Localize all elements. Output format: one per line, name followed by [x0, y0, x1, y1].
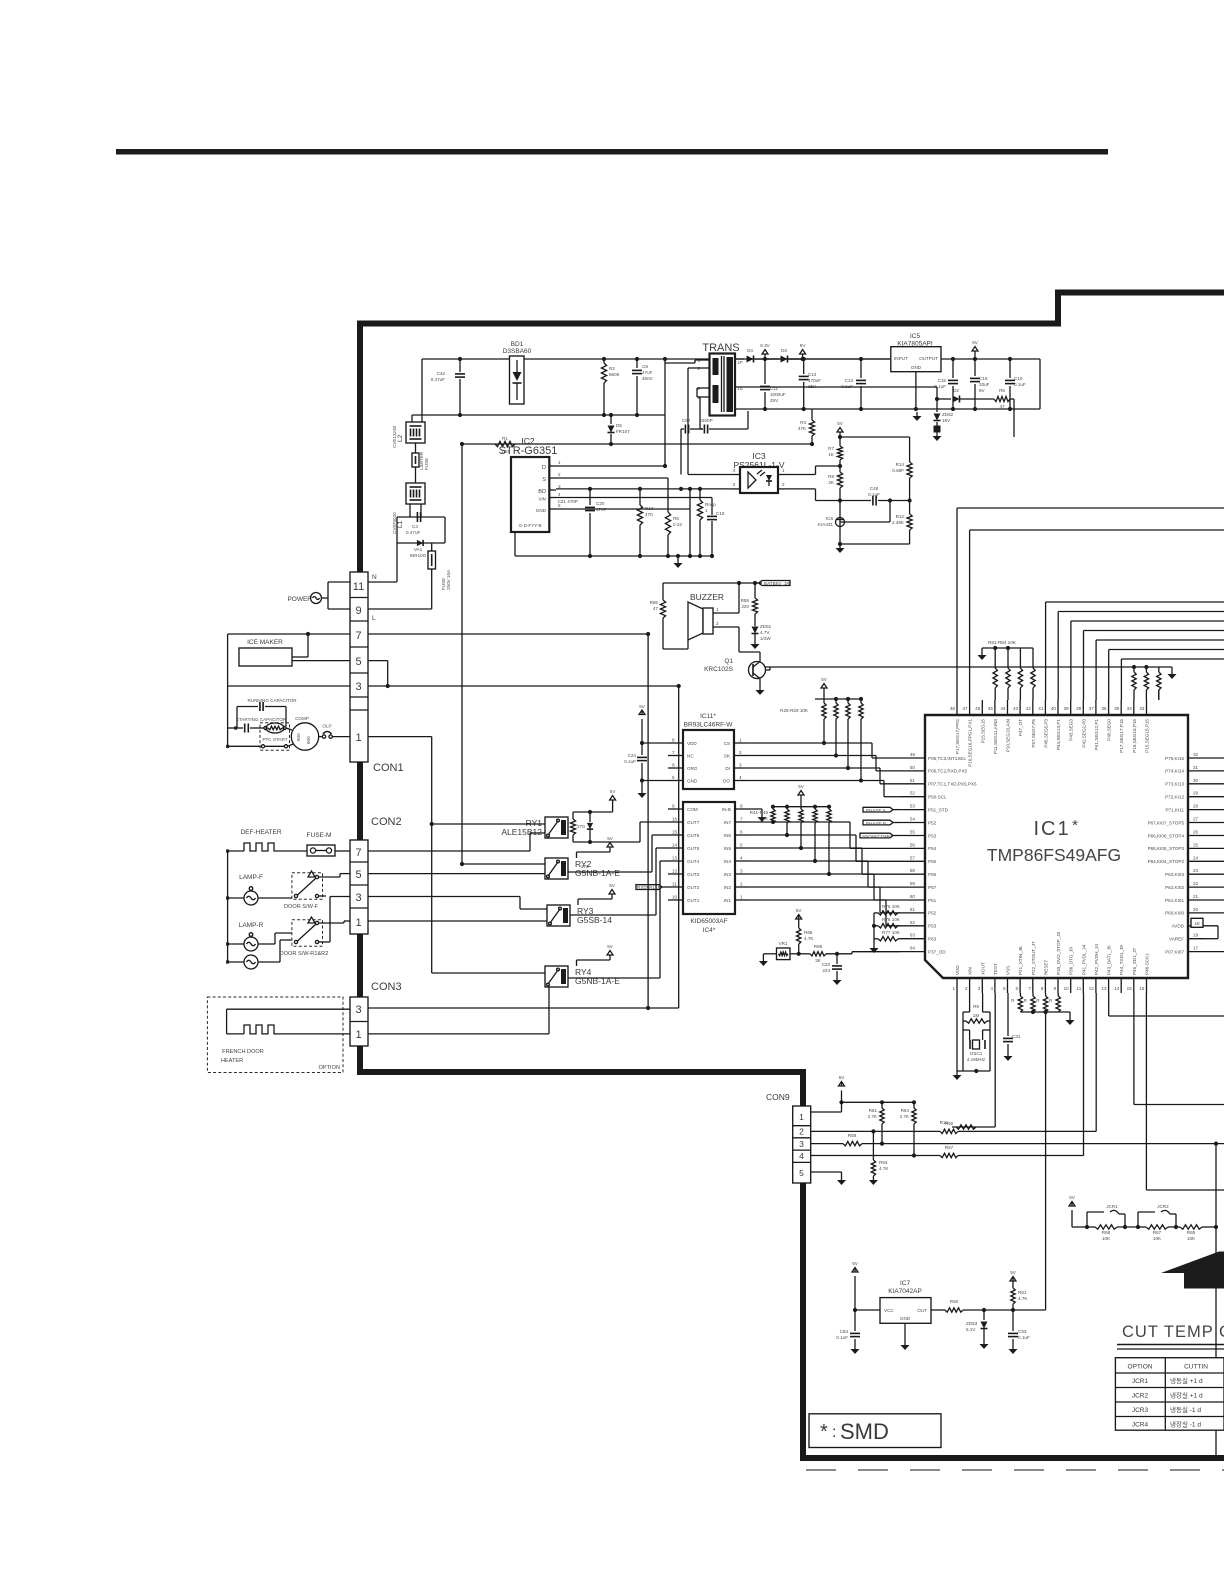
resistor R53 4.7K pulldown	[869, 1131, 889, 1185]
svg-text:PHASE B: PHASE B	[866, 821, 886, 826]
svg-text:R75 10K: R75 10K	[882, 904, 901, 909]
connector CON9	[766, 1092, 811, 1183]
optocoupler IC3 PS2561L-1-V	[732, 451, 786, 493]
motor COMP	[226, 716, 319, 750]
capacitor C10 0.1uF	[1005, 357, 1026, 411]
svg-text:1M: 1M	[973, 1013, 980, 1018]
wire: aux winding to zener	[735, 387, 937, 399]
svg-text:R10: R10	[645, 506, 654, 511]
svg-text:1: 1	[740, 895, 743, 900]
svg-text:4: 4	[558, 492, 561, 497]
resistor R2 560K	[601, 359, 620, 415]
inductor L1 CV970020	[392, 483, 425, 534]
svg-text:4.7K: 4.7K	[879, 1166, 889, 1171]
svg-text:223: 223	[822, 968, 830, 973]
svg-text:2: 2	[558, 472, 561, 477]
svg-text:VDD: VDD	[955, 965, 960, 975]
svg-text:6V: 6V	[979, 388, 986, 393]
svg-text:C48: C48	[870, 486, 879, 491]
svg-text:10K: 10K	[1102, 1236, 1111, 1241]
svg-text:NC: NC	[687, 754, 694, 759]
svg-text:25V: 25V	[770, 398, 779, 403]
svg-text:P16,SEG16,PPG1,PX1: P16,SEG16,PPG1,PX1	[968, 719, 973, 767]
diode D41 relay RY1	[587, 810, 593, 844]
svg-text:C42: C42	[437, 371, 446, 376]
svg-text:3: 3	[355, 892, 361, 904]
svg-text:OUT6: OUT6	[687, 833, 700, 838]
svg-text:P57: P57	[928, 885, 937, 890]
svg-text:FUSE-M: FUSE-M	[307, 832, 332, 839]
svg-text:270: 270	[577, 824, 585, 829]
svg-text:OPTION: OPTION	[319, 1065, 340, 1071]
svg-text:P41_PVDL_J4: P41_PVDL_J4	[1081, 944, 1086, 975]
wire: L line to CON1 pin9	[368, 569, 432, 622]
svg-text:3: 3	[978, 986, 981, 991]
svg-text:R7: R7	[828, 446, 834, 451]
svg-text:CV970020: CV970020	[392, 512, 397, 534]
svg-text:4: 4	[732, 468, 735, 473]
resistor R14 680K	[892, 437, 912, 503]
svg-text:0.1uF: 0.1uF	[624, 759, 636, 764]
svg-text:IC11*: IC11*	[700, 713, 716, 720]
svg-text:JCR4: JCR4	[1132, 1422, 1149, 1429]
svg-text:VSS: VSS	[1006, 966, 1011, 975]
svg-text:DOOR S/W-F: DOOR S/W-F	[284, 904, 319, 910]
svg-text:IN1: IN1	[724, 898, 732, 903]
svg-text:IC1: IC1	[1033, 818, 1070, 840]
svg-text:JCR1: JCR1	[1132, 1378, 1149, 1385]
svg-text:TEST: TEST	[993, 963, 998, 975]
zener ZD52 18V	[933, 399, 954, 441]
svg-text:4.7K: 4.7K	[804, 936, 814, 941]
svg-text:P33_DVO_STOP_J3: P33_DVO_STOP_J3	[1056, 931, 1061, 975]
svg-text:5V: 5V	[852, 1261, 859, 1266]
svg-text:1: 1	[716, 607, 719, 612]
svg-text:60: 60	[910, 894, 916, 899]
svg-text:3: 3	[740, 869, 743, 874]
svg-text:470: 470	[645, 512, 653, 517]
wire: RY2 contacts	[368, 862, 545, 874]
svg-text:ORG: ORG	[687, 766, 698, 771]
svg-text:LAMP-R: LAMP-R	[239, 922, 264, 929]
wire: snubber return	[462, 443, 812, 445]
capacitor C31 VSS	[1003, 993, 1021, 1061]
ground resistor trio	[873, 944, 875, 948]
svg-text:11: 11	[672, 882, 677, 887]
resistor trio R75-R77 10K to IC1	[872, 904, 901, 944]
svg-text:C16: C16	[979, 376, 988, 381]
capacitor C8 47uF 450V	[632, 359, 654, 415]
net tag RXD5RL1R	[636, 885, 668, 890]
svg-text:1/2W: 1/2W	[760, 636, 771, 641]
svg-text:FRENCH DOOR: FRENCH DOOR	[222, 1049, 264, 1055]
svg-text:4: 4	[740, 856, 743, 861]
svg-text:R5: R5	[999, 388, 1005, 393]
svg-text:600: 600	[296, 733, 301, 741]
svg-text:C19: C19	[716, 511, 725, 516]
svg-text:5: 5	[1003, 986, 1006, 991]
ground IC11	[641, 789, 643, 793]
resistor array R15-R18 below IC1	[1011, 993, 1070, 1016]
capacitor C54 0.1uF	[836, 1310, 860, 1345]
svg-text:33: 33	[1139, 706, 1145, 711]
svg-text:KRC102S: KRC102S	[704, 666, 734, 673]
svg-text:IN6: IN6	[724, 833, 732, 838]
capacitor C48 0.1uF	[840, 486, 910, 506]
svg-text:2K: 2K	[828, 480, 835, 485]
ground Q1 emitter	[759, 686, 761, 690]
svg-text:R77 10K: R77 10K	[882, 930, 901, 935]
svg-text:50: 50	[910, 765, 916, 770]
svg-text:P11,SEG11,AIN3: P11,SEG11,AIN3	[993, 719, 998, 755]
svg-text:55: 55	[910, 830, 916, 835]
svg-text:IC7: IC7	[900, 1280, 911, 1287]
relay RY2 G5NB-1A-E	[545, 858, 620, 879]
svg-text:15: 15	[672, 830, 678, 835]
svg-text:TRANS: TRANS	[702, 342, 739, 354]
svg-text:14: 14	[672, 843, 678, 848]
wire: key matrix stubs	[1158, 690, 1160, 700]
svg-text:470P: 470P	[596, 507, 607, 512]
svg-text:6.3V: 6.3V	[760, 343, 770, 348]
svg-text:39: 39	[1064, 706, 1070, 711]
resistor R58 22	[843, 1133, 862, 1146]
svg-text:4.7K: 4.7K	[759, 816, 769, 821]
wire: CON9 pin3 line	[811, 1143, 1224, 1145]
svg-text:3: 3	[355, 1004, 361, 1016]
capacitor C23 0.022uF	[822, 962, 842, 976]
svg-text:5.1V: 5.1V	[966, 1327, 976, 1332]
fuse FUSE 250V 10A	[428, 543, 451, 590]
switch DOOR S/W-R1&R2	[280, 897, 350, 958]
wire: CON1 pin7 feed down	[647, 634, 649, 1008]
crystal OSC1 4.19MHz	[963, 1030, 990, 1071]
svg-text:R2: R2	[609, 366, 615, 371]
svg-text:R6: R6	[673, 516, 679, 521]
svg-text:4: 4	[990, 986, 993, 991]
svg-text:R67: R67	[1153, 1230, 1162, 1235]
svg-text:냉동실 -1 d: 냉동실 -1 d	[1170, 1405, 1201, 1414]
resistor R3 47K	[798, 409, 815, 446]
svg-text:R76 10K: R76 10K	[882, 917, 901, 922]
svg-text:45: 45	[988, 706, 994, 711]
svg-text:S: S	[542, 477, 546, 483]
svg-text:0.68F: 0.68F	[892, 468, 904, 473]
svg-text:5V: 5V	[839, 1075, 846, 1080]
svg-text:R81-R84 10K: R81-R84 10K	[988, 640, 1017, 645]
heater FRENCH DOOR HEATER	[207, 997, 350, 1073]
wire: CON9 pin5 ground	[811, 1172, 842, 1176]
wire: divider top branch	[840, 436, 910, 438]
svg-text:R60: R60	[950, 1299, 959, 1304]
svg-text:10: 10	[1064, 986, 1070, 991]
svg-text:KIA431: KIA431	[818, 522, 834, 527]
svg-text:4.7V: 4.7V	[760, 630, 770, 635]
wire: RY4 contacts	[368, 973, 549, 1034]
ground IC7	[901, 1323, 910, 1350]
resistor R22 270 relay RY2	[577, 852, 590, 869]
capacitor C4 0.47uF	[406, 512, 421, 535]
wire: 5V output rail	[941, 359, 1040, 409]
diode D3	[765, 348, 805, 363]
svg-text:BD: BD	[538, 489, 546, 495]
svg-text:15: 15	[1127, 986, 1133, 991]
svg-text:DI: DI	[725, 766, 730, 771]
power node 5V RY3	[578, 883, 616, 905]
svg-text:OUT5: OUT5	[687, 846, 700, 851]
fuse resistor FR1	[412, 443, 429, 483]
svg-text:R68: R68	[1102, 1230, 1111, 1235]
wire: transformer primary connections	[688, 360, 703, 475]
svg-text:VAREF: VAREF	[1169, 937, 1184, 942]
svg-text:0.1uF: 0.1uF	[1014, 382, 1026, 387]
svg-text:5V: 5V	[1069, 1195, 1076, 1200]
svg-text:P61,KI01: P61,KI01	[1165, 898, 1184, 903]
svg-text:ZD53: ZD53	[966, 1321, 978, 1326]
svg-text:IN7: IN7	[724, 820, 732, 825]
svg-text:CS: CS	[724, 741, 730, 746]
svg-text:5: 5	[799, 1168, 804, 1178]
svg-text:C20: C20	[596, 501, 605, 506]
eeprom IC11 BR93LC46RF-W	[668, 713, 747, 789]
svg-text:FR107: FR107	[616, 429, 630, 434]
svg-text:OSC1: OSC1	[970, 1051, 983, 1056]
svg-text:4: 4	[739, 775, 742, 780]
schematic outer border	[360, 293, 1224, 1459]
svg-text:*: *	[820, 1421, 828, 1443]
svg-text:450V: 450V	[642, 376, 654, 381]
svg-text:CON1: CON1	[373, 762, 404, 774]
wire: RY1 coil supply	[573, 805, 613, 817]
svg-text:P45_SD1_J7: P45_SD1_J7	[1132, 947, 1137, 975]
svg-text:4.19MHz: 4.19MHz	[967, 1057, 986, 1062]
svg-text:VR1: VR1	[779, 941, 788, 946]
svg-text:CON2: CON2	[371, 816, 402, 828]
svg-text:2: 2	[740, 882, 743, 887]
wire: CON3 pin3 line	[368, 1006, 679, 1010]
resistor R56 47	[650, 583, 688, 649]
wire: IC1 pin48 bus	[957, 508, 1224, 700]
svg-text:VA1: VA1	[414, 547, 423, 552]
svg-text:IN5: IN5	[724, 846, 732, 851]
svg-text:24: 24	[1193, 855, 1199, 860]
svg-text:VIN: VIN	[538, 497, 546, 502]
svg-text:53: 53	[910, 804, 916, 809]
svg-text:1: 1	[782, 468, 785, 473]
capacitor C50 2200PF	[699, 411, 748, 434]
power node 5V RY4	[577, 944, 614, 966]
svg-text:1: 1	[799, 1112, 804, 1122]
capacitor C42 0.47uF	[431, 359, 465, 415]
svg-text:D4: D4	[747, 348, 753, 353]
svg-text:OUT1: OUT1	[687, 898, 700, 903]
svg-text:40: 40	[1051, 706, 1057, 711]
svg-text:49: 49	[910, 752, 916, 757]
svg-text:R51: R51	[869, 1108, 878, 1113]
svg-text:1K: 1K	[828, 452, 835, 457]
wire: P43 down join con9	[1095, 993, 1097, 1131]
svg-text:P40,SEG0: P40,SEG0	[1107, 719, 1112, 741]
svg-text:33uF: 33uF	[979, 382, 990, 387]
svg-text:47: 47	[999, 404, 1005, 409]
page title rule	[116, 149, 1108, 155]
svg-text:4.7K: 4.7K	[900, 1114, 910, 1119]
svg-text:냉장실 +1 d: 냉장실 +1 d	[1170, 1391, 1203, 1400]
svg-text:47uF: 47uF	[642, 370, 653, 375]
svg-text:C52: C52	[682, 418, 691, 423]
resistor Rocp 1	[697, 487, 716, 558]
svg-text:19: 19	[1193, 933, 1199, 938]
wire: CON1 pin5 line	[292, 661, 390, 689]
resistor array R41-R45 4.7K pullups IC4	[750, 784, 832, 876]
diode D4	[747, 348, 768, 363]
svg-text:P53: P53	[928, 833, 937, 838]
resistor R51 4.7K	[868, 1102, 885, 1145]
svg-text:56: 56	[910, 842, 916, 847]
svg-text:P72,KI12: P72,KI12	[1165, 795, 1184, 800]
node 5V feedback	[837, 421, 844, 437]
svg-text:C54: C54	[840, 1329, 849, 1334]
svg-text:R9: R9	[973, 1004, 979, 1009]
svg-text:26: 26	[1193, 830, 1199, 835]
svg-text:D5: D5	[616, 423, 622, 428]
svg-text:P07,KI07: P07,KI07	[1165, 949, 1184, 954]
svg-text:32: 32	[1193, 752, 1199, 757]
svg-text:GND: GND	[536, 508, 547, 513]
svg-text:2: 2	[739, 750, 742, 755]
svg-text:TMP86FS49AFG: TMP86FS49AFG	[987, 845, 1121, 865]
svg-text:P73,KI13: P73,KI13	[1165, 782, 1184, 787]
wire: driver inputs to IC1	[748, 822, 900, 926]
svg-text:5: 5	[355, 656, 361, 668]
svg-text:6: 6	[672, 763, 675, 768]
svg-text:2.49K: 2.49K	[892, 520, 905, 525]
wire: RESET line to IC7	[1044, 1010, 1048, 1310]
svg-text:10: 10	[672, 895, 678, 900]
svg-text:P10,SEG10,AIN: P10,SEG10,AIN	[1006, 719, 1011, 752]
svg-text:KIA7042AP: KIA7042AP	[888, 1288, 922, 1295]
svg-text:1: 1	[952, 986, 955, 991]
resistor R10 470	[637, 487, 653, 558]
svg-text:25: 25	[1193, 842, 1199, 847]
svg-text:PHASE A: PHASE A	[866, 808, 887, 813]
power node 5V IC11	[639, 704, 668, 745]
svg-text:BR93LC46RF-W: BR93LC46RF-W	[684, 722, 734, 729]
svg-text:58: 58	[910, 868, 916, 873]
power node 5V RY2	[577, 836, 614, 852]
wire: JCR feed vertical	[1214, 1142, 1218, 1456]
wire: secondary 9V rail	[735, 358, 890, 360]
svg-text:P63: P63	[928, 937, 937, 942]
svg-text:5: 5	[740, 843, 743, 848]
svg-text:GND: GND	[911, 365, 922, 370]
varistor VA1	[410, 540, 427, 558]
arrow marker	[1161, 1252, 1224, 1289]
svg-text:P17,SEG17,PPG: P17,SEG17,PPG	[955, 719, 960, 755]
wire: CON9 pin2 line	[811, 1129, 1096, 1133]
ground CON9 pin5	[841, 1176, 843, 1180]
capacitor C53 0.1uF reset	[1008, 1310, 1030, 1354]
svg-text:CUT TEMP Co: CUT TEMP Co	[1122, 1323, 1224, 1341]
resistor R1 100 ohm	[495, 436, 515, 454]
svg-text:G-D-FYY-B: G-D-FYY-B	[518, 523, 541, 528]
svg-text:IN-B: IN-B	[722, 807, 731, 812]
svg-text:51: 51	[910, 778, 916, 783]
connector CON2	[350, 816, 402, 934]
svg-text:21: 21	[1193, 894, 1199, 899]
capacitor C15 0.1uF	[934, 357, 958, 411]
svg-text:P66,KI06_STOP4: P66,KI06_STOP4	[1148, 833, 1185, 838]
thermistor cluster VR1 R66 R69	[763, 908, 900, 964]
fuse FUSE-M	[307, 832, 350, 856]
jumper JCR2	[1138, 1204, 1180, 1241]
wire: P44 down to right edge	[1134, 993, 1224, 1105]
svg-text:P16,SEG16,P15: P16,SEG16,P15	[1132, 719, 1137, 753]
svg-text:P15,SEG15: P15,SEG15	[980, 719, 985, 744]
svg-text:L2: L2	[397, 434, 404, 442]
driver IC4 KID65003AF	[668, 802, 748, 934]
transformer TRANS	[697, 342, 742, 416]
wire bundle IC1 top to right edge	[1046, 602, 1224, 700]
transistor Q1 KRC102S	[704, 627, 770, 686]
svg-text:JCR3: JCR3	[1132, 1407, 1149, 1414]
junction dots smps rails	[458, 357, 667, 446]
wire: P36 down to right edge	[1109, 993, 1224, 1016]
ground C23	[836, 976, 838, 980]
svg-text:D2: D2	[953, 388, 959, 393]
svg-text:CVE13240: CVE13240	[392, 425, 397, 448]
svg-text:41: 41	[1038, 706, 1044, 711]
svg-text:INR10G: INR10G	[410, 553, 427, 558]
svg-text:STR-G6351: STR-G6351	[499, 445, 558, 457]
svg-text:47: 47	[653, 606, 659, 611]
ground left pulldown array	[978, 648, 987, 660]
svg-text:R41-R45: R41-R45	[750, 810, 769, 815]
svg-text:34: 34	[1127, 706, 1133, 711]
jumper JCR1	[1085, 1204, 1140, 1241]
svg-text:R58: R58	[848, 1133, 857, 1138]
ground IC5	[916, 412, 918, 416]
svg-text:POWER: POWER	[287, 596, 312, 603]
svg-text:GND: GND	[687, 779, 698, 784]
svg-text:11: 11	[1077, 986, 1082, 991]
svg-text:61: 61	[910, 907, 916, 912]
svg-text:CON9: CON9	[766, 1092, 790, 1102]
svg-text:P62,KI02: P62,KI02	[1165, 885, 1184, 890]
svg-text:46: 46	[975, 706, 981, 711]
svg-text:9: 9	[672, 804, 675, 809]
ground feedback divider	[839, 544, 841, 548]
capacitor RUNNING CAPACITOR	[237, 698, 297, 728]
svg-text:P41,SEG12,P1: P41,SEG12,P1	[1094, 719, 1099, 751]
net tag BATB5V_1R	[755, 581, 790, 587]
svg-text:2200P: 2200P	[699, 418, 712, 423]
svg-text:HEATER: HEATER	[221, 1058, 243, 1064]
svg-text:IN3: IN3	[724, 872, 732, 877]
svg-text:1: 1	[705, 508, 708, 513]
svg-text:7: 7	[355, 847, 361, 859]
resistor array R85-R88 key pullups right	[766, 665, 1173, 700]
resistor R59 220	[741, 583, 758, 626]
wire: CON1 pin3 line	[228, 634, 681, 746]
svg-text:10K: 10K	[1187, 1236, 1196, 1241]
svg-text:0.1uF: 0.1uF	[1018, 1335, 1030, 1340]
svg-text:37: 37	[1089, 706, 1095, 711]
switch DOOR S/W-F	[284, 871, 350, 910]
svg-text:D3SBA60: D3SBA60	[503, 348, 532, 355]
svg-text:C10: C10	[1014, 376, 1023, 381]
svg-text:5V: 5V	[798, 784, 805, 789]
